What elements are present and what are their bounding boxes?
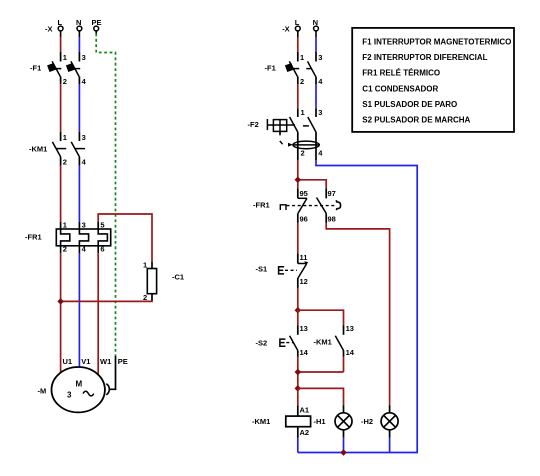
svg-text:F2 INTERRUPTOR DIFERENCIAL: F2 INTERRUPTOR DIFERENCIAL	[362, 53, 487, 62]
svg-text:-FR1: -FR1	[253, 201, 270, 210]
svg-text:A1: A1	[300, 405, 310, 414]
svg-text:14: 14	[300, 348, 309, 357]
svg-text:2: 2	[301, 148, 305, 157]
svg-text:-F2: -F2	[248, 120, 259, 129]
svg-text:-FR1: -FR1	[25, 233, 42, 242]
svg-text:-F1: -F1	[265, 64, 276, 73]
svg-text:2: 2	[300, 77, 304, 86]
svg-text:-C1: -C1	[172, 273, 184, 282]
svg-text:96: 96	[300, 214, 308, 223]
svg-text:2: 2	[63, 77, 67, 86]
svg-text:2: 2	[143, 293, 147, 302]
svg-text:N: N	[313, 18, 318, 27]
svg-text:3: 3	[82, 53, 86, 62]
svg-text:97: 97	[328, 189, 336, 198]
svg-text:V1: V1	[81, 357, 90, 366]
svg-text:3: 3	[82, 221, 86, 230]
svg-text:3: 3	[318, 108, 322, 117]
svg-text:2: 2	[63, 158, 67, 167]
svg-text:-S1: -S1	[256, 265, 268, 274]
svg-text:-X: -X	[282, 25, 290, 34]
svg-text:1: 1	[300, 53, 304, 62]
svg-text:13: 13	[300, 324, 308, 333]
svg-text:98: 98	[328, 214, 336, 223]
svg-text:3: 3	[318, 53, 322, 62]
svg-text:1: 1	[63, 133, 67, 142]
svg-text:-M: -M	[38, 387, 47, 396]
svg-text:-F1: -F1	[30, 64, 41, 73]
svg-text:1: 1	[301, 108, 305, 117]
svg-text:6: 6	[100, 245, 104, 254]
svg-text:12: 12	[300, 277, 308, 286]
svg-text:F1 INTERRUPTOR MAGNETOTERMICO: F1 INTERRUPTOR MAGNETOTERMICO	[362, 38, 511, 47]
svg-text:13: 13	[346, 324, 354, 333]
svg-text:5: 5	[100, 221, 104, 230]
svg-text:-X: -X	[45, 25, 53, 34]
svg-text:L: L	[58, 18, 63, 27]
svg-text:1: 1	[63, 221, 67, 230]
svg-text:3: 3	[82, 133, 86, 142]
svg-text:A2: A2	[300, 428, 310, 437]
svg-text:1: 1	[63, 53, 67, 62]
svg-text:M: M	[76, 380, 83, 389]
svg-text:N: N	[76, 18, 81, 27]
svg-text:PE: PE	[92, 18, 102, 27]
svg-text:95: 95	[300, 189, 308, 198]
svg-text:U1: U1	[63, 357, 73, 366]
svg-text:C1 CONDENSADOR: C1 CONDENSADOR	[362, 85, 438, 94]
svg-text:PE: PE	[118, 357, 128, 366]
svg-text:-H2: -H2	[361, 417, 373, 426]
svg-text:-S2: -S2	[256, 338, 268, 347]
svg-text:-H1: -H1	[314, 417, 326, 426]
svg-text:-KM1: -KM1	[252, 417, 270, 426]
svg-text:S1 PULSADOR DE PARO: S1 PULSADOR DE PARO	[362, 100, 457, 109]
svg-text:11: 11	[300, 253, 308, 262]
svg-text:S2 PULSADOR DE MARCHA: S2 PULSADOR DE MARCHA	[362, 116, 470, 125]
svg-text:-KM1: -KM1	[314, 338, 332, 347]
svg-text:3: 3	[67, 391, 72, 400]
svg-text:L: L	[295, 18, 300, 27]
svg-text:14: 14	[346, 348, 355, 357]
svg-text:-KM1: -KM1	[29, 145, 47, 154]
svg-text:W1: W1	[100, 357, 111, 366]
svg-text:1: 1	[143, 261, 147, 270]
svg-text:FR1 RELÉ TÉRMICO: FR1 RELÉ TÉRMICO	[362, 69, 440, 78]
svg-text:2: 2	[63, 245, 67, 254]
